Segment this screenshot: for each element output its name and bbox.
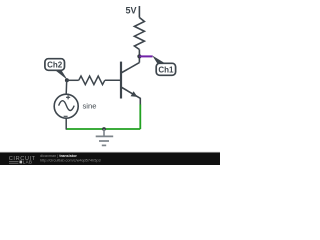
wire base right lead xyxy=(105,79,121,81)
node junction dot (ground) xyxy=(102,127,106,131)
transistor Q1 collector lead xyxy=(121,63,139,73)
node junction dot (base / sine / Ch2) xyxy=(65,78,69,82)
transistor Q1 emitter arrow xyxy=(131,91,138,97)
svg-text:dicaxman | transistor: dicaxman | transistor xyxy=(40,154,77,158)
svg-text:http://circuitlab.com/c/w4qd57: http://circuitlab.com/c/w4qd574h5p3 xyxy=(40,159,101,163)
resistor R2 (base, horizontal) xyxy=(79,76,105,85)
svg-text:LAB: LAB xyxy=(23,159,33,164)
wire ground bus (green horizontal) xyxy=(66,128,140,130)
transistor Q1 emitter lead xyxy=(121,87,140,105)
label Ch1 xyxy=(156,63,175,75)
wire base left lead xyxy=(67,79,79,81)
label Ch2 xyxy=(45,59,65,71)
wire sine bottom lead xyxy=(65,118,67,129)
probe flag Ch1 xyxy=(152,56,164,64)
ground symbol xyxy=(96,129,114,145)
wire net Ch1 (purple) xyxy=(139,55,152,57)
wire 5V supply stub xyxy=(138,6,140,18)
wire emitter to ground (green vertical) xyxy=(139,104,141,129)
wire resistor bottom to collector xyxy=(138,50,140,63)
node junction dot (collector / Ch1) xyxy=(137,54,141,58)
transistor Q1 base bar xyxy=(120,62,122,99)
svg-text:sine: sine xyxy=(83,102,97,111)
svg-text:Ch2: Ch2 xyxy=(47,61,63,70)
watermark bar xyxy=(0,153,220,166)
svg-text:Ch1: Ch1 xyxy=(158,65,174,74)
probe flag Ch2 xyxy=(55,70,67,80)
resistor R1 (collector, vertical) xyxy=(134,18,144,50)
wire sine top lead xyxy=(65,80,68,94)
logo CircuitLab xyxy=(9,156,36,164)
svg-text:5V: 5V xyxy=(126,6,137,16)
voltage source V1 (sine) xyxy=(54,94,78,118)
